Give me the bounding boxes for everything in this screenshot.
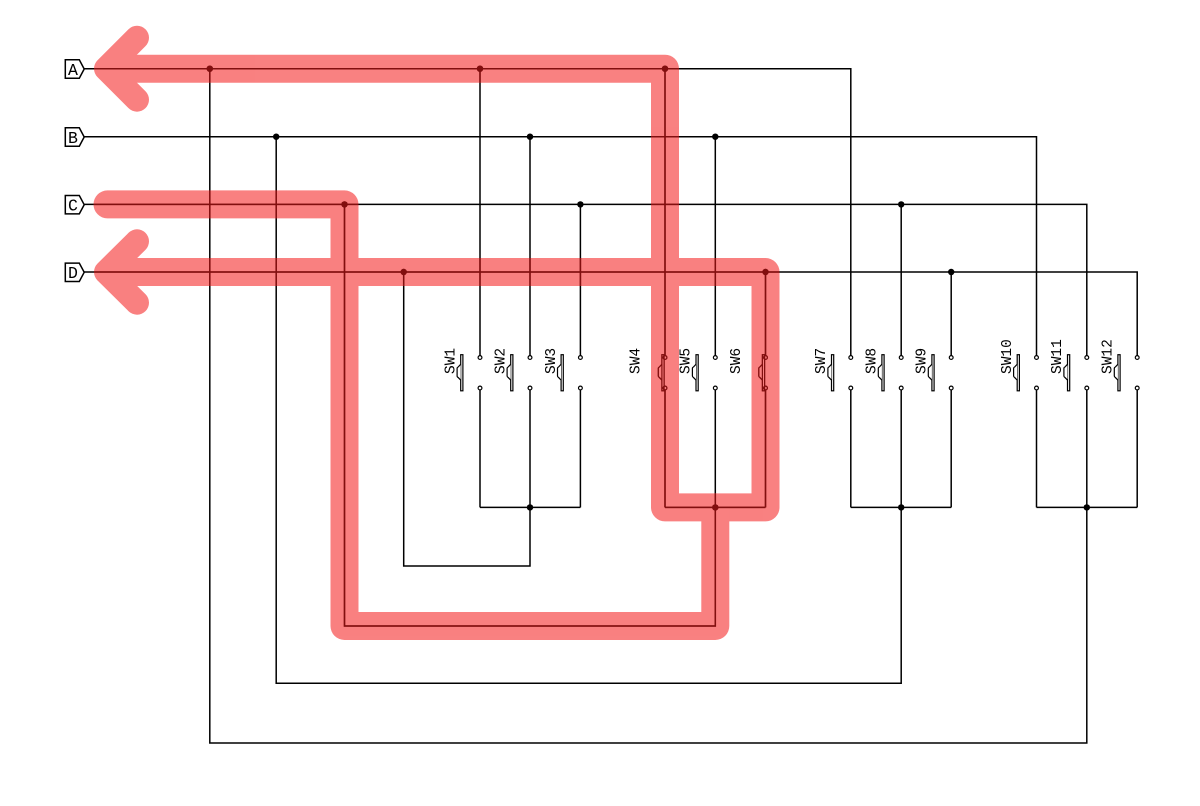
wire SW2 to bottom bus [529,390,531,508]
wire net D down to SW9 [950,272,952,356]
junction net D to SW9 [948,269,954,275]
wire net B down to SW2 [529,137,531,356]
switch SW12 push-button [1101,339,1140,391]
highlight path C to bottom bus [108,204,716,626]
net label D [65,263,84,283]
svg-text:A: A [68,61,78,80]
junction net D at return loop [401,269,407,275]
wire SW7 to bottom bus [850,390,852,508]
net B horizontal wire and corner drop [84,137,1036,356]
switch SW3 push-button [544,348,583,391]
net label A [65,60,84,80]
net A return loop wire [210,69,1087,743]
svg-text:SW2: SW2 [493,348,509,374]
svg-text:SW4: SW4 [628,348,644,374]
svg-text:SW1: SW1 [443,348,459,374]
junction net C to SW3 [577,201,583,207]
net A horizontal wire and corner drop [84,69,851,356]
switch SW8 push-button [865,348,904,391]
junction net B at return loop [273,134,279,140]
svg-text:SW3: SW3 [544,348,560,374]
wire net C down to SW3 [579,204,581,355]
wire net D down to SW6 [765,272,767,356]
highlighted ghost-current path (pink overlay) [106,38,766,626]
wire SW5 to bottom bus [714,390,716,508]
dark red wires inside highlight [84,66,1139,744]
switch SW9 push-button [915,348,954,391]
junction bottom bus to net A loop [1084,504,1090,510]
wire SW10 to bottom bus [1036,390,1038,508]
wire SW12 to bottom bus [1136,390,1138,508]
wire net B down to SW5 [714,137,716,356]
bottom bus group SW4-SW6 [665,506,766,508]
switch SW5 push-button [679,348,717,391]
wire SW9 to bottom bus [950,390,952,508]
junction net D to SW6 [762,269,768,275]
arrowhead at net A output [106,38,137,100]
wire SW3 to bottom bus [579,390,581,508]
net label C [65,196,84,216]
bottom bus group SW7-SW9 [851,506,951,508]
junction net A to SW1 [477,66,483,72]
junction net B to SW5 [712,134,718,140]
wire SW6 to bottom bus [765,390,767,508]
highlight path A-SW4-bus-SW6-D [112,69,766,508]
net C return loop wire [345,204,716,626]
net D horizontal wire and corner drop [84,272,1137,356]
arrowhead at net D output [106,241,137,302]
svg-text:SW5: SW5 [679,348,695,374]
svg-text:B: B [68,129,78,148]
junction net B to SW2 [527,134,533,140]
net label B [65,128,84,148]
junction net C at return loop [341,201,347,207]
svg-text:SW8: SW8 [865,348,881,374]
junction net A to SW4 [662,66,668,72]
bottom bus group SW1-SW3 [480,506,580,508]
switch SW7 push-button [814,348,852,391]
switch SW1 push-button [443,348,482,391]
junction bottom bus to net C loop [712,504,718,510]
switch SW6 push-button (pressed) [729,348,767,391]
svg-text:SW7: SW7 [814,348,830,374]
svg-text:SW10: SW10 [1000,339,1016,374]
net D return loop wire [404,272,530,566]
wire SW11 to bottom bus [1086,390,1088,508]
junction bottom bus to net B loop [898,504,904,510]
svg-text:C: C [68,197,78,216]
wire SW8 to bottom bus [900,390,902,508]
wire net A down to SW4 [664,69,666,356]
svg-text:SW9: SW9 [915,348,931,374]
switch SW2 push-button [493,348,531,391]
svg-text:SW6: SW6 [729,348,745,374]
svg-text:SW11: SW11 [1050,339,1066,374]
junction net C to SW8 [898,201,904,207]
switch SW10 push-button [1000,339,1039,391]
wire SW4 to bottom bus [664,390,666,508]
switch SW11 push-button [1050,339,1089,391]
wire net C down to SW8 [900,204,902,355]
switch SW4 push-button (pressed) [628,348,666,391]
net C horizontal wire and corner drop [84,204,1087,355]
svg-text:SW12: SW12 [1101,339,1117,374]
net B return loop wire [276,137,901,684]
bottom bus group SW10-SW12 [1037,506,1138,508]
junction bottom bus to net D loop [527,504,533,510]
junction net A at return loop [207,66,213,72]
wire SW1 to bottom bus [479,390,481,508]
svg-text:D: D [68,264,78,283]
wire net A down to SW1 [479,69,481,356]
